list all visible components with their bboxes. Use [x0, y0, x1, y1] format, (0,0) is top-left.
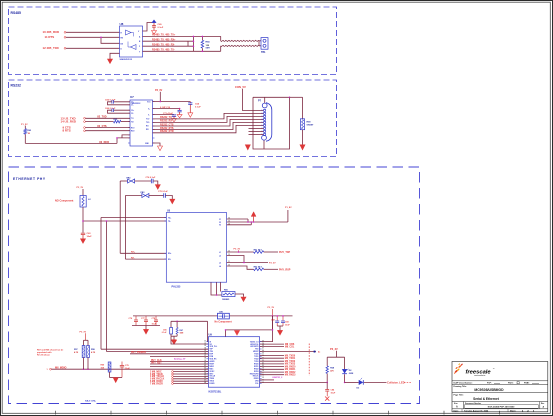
wire U9 right MII_RXD3 — [260, 374, 284, 376]
wire CON_5V to DB9 — [242, 89, 263, 111]
wire decoupling rail — [133, 315, 293, 317]
svg-text:C2+: C2+ — [131, 110, 134, 112]
svg-text:10K: 10K — [101, 368, 105, 370]
junction L2 — [82, 220, 84, 222]
capacitor C69 — [152, 25, 156, 27]
svg-text:32: 32 — [204, 343, 206, 345]
ground C82 C83 — [278, 330, 283, 335]
svg-text:RS485_TX_485_RX-: RS485_TX_485_RX- — [152, 44, 175, 47]
section box RS232 — [9, 80, 337, 157]
wire caps join — [277, 325, 283, 327]
op-amp U8 RS485 transceiver — [120, 26, 143, 57]
svg-text:15: 15 — [262, 377, 264, 379]
capacitor C79 — [120, 364, 124, 366]
resistor R58 pullup — [87, 340, 89, 345]
svg-text:17: 17 — [262, 372, 264, 374]
resistor R69 shunt branch — [290, 96, 303, 98]
wire U9 row3 right — [260, 346, 284, 348]
wire U5 row3 P3_3V — [227, 262, 268, 264]
wire U9 row 356.5 — [150, 355, 208, 357]
capacitor C10 — [179, 108, 181, 110]
svg-text:Serial & Ethernet: Serial & Ethernet — [473, 397, 500, 401]
resistor R61 — [254, 251, 264, 254]
capacitor C78 — [155, 316, 157, 320]
junction loop c — [193, 45, 195, 47]
wire FB2 to C74 — [135, 180, 151, 182]
svg-text:ICAP Classification:: ICAP Classification: — [454, 382, 473, 385]
wire U9 row 364 — [150, 363, 208, 365]
svg-text:U2_TXD: U2_TXD — [97, 116, 107, 119]
svg-text:Rev: Rev — [541, 403, 544, 405]
wire U2_RXD to U7 — [85, 121, 113, 123]
svg-text:4.7K: 4.7K — [74, 351, 79, 354]
wire U9 right MII_RXD0 — [260, 366, 284, 368]
power arrow U5 — [253, 216, 255, 222]
junction DTR — [116, 137, 118, 139]
svg-text:R62 49.9: R62 49.9 — [254, 266, 263, 269]
svg-text:U2_CTS: U2_CTS — [97, 125, 107, 128]
svg-text:R65: R65 — [114, 119, 117, 121]
wire R60 to ground — [235, 294, 244, 297]
wire MII_MDIO long — [51, 368, 208, 370]
wire termination loop mid vertical — [192, 36, 194, 51]
svg-text:COL: COL — [255, 383, 259, 385]
svg-text:P3_3V: P3_3V — [234, 249, 241, 251]
LED D3 collision — [359, 380, 363, 385]
junction power rail — [225, 329, 227, 331]
svg-text:RS485_TX_485_RX+: RS485_TX_485_RX+ — [152, 39, 176, 42]
wire R61 out — [264, 251, 278, 253]
svg-text:SN65HVD12: SN65HVD12 — [120, 59, 133, 61]
svg-text:P3_3V: P3_3V — [80, 331, 87, 333]
svg-text:Tuesday, August 01, 2006: Tuesday, August 01, 2006 — [464, 409, 489, 412]
svg-text:C2-: C2- — [131, 113, 134, 115]
svg-text:PHL335: PHL335 — [172, 285, 181, 288]
svg-text:U8: U8 — [120, 22, 124, 26]
wire U9 left MII_MDC — [172, 371, 174, 373]
freescale logo — [454, 370, 458, 374]
svg-text:V2: V2 — [219, 222, 221, 224]
bottom fold tick marks — [55, 411, 57, 415]
junction D2 rail — [344, 382, 346, 384]
ground below R69 — [300, 145, 305, 150]
wire C75 to ground — [166, 196, 173, 200]
svg-text:SCH-23455 PDF 24731000: SCH-23455 PDF 24731000 — [488, 406, 516, 409]
capacitor C86 no component — [218, 313, 230, 319]
IC U9 ethernet PHY — [208, 337, 259, 388]
wire D3 out — [364, 381, 387, 383]
svg-text:KS8721BL: KS8721BL — [209, 389, 222, 393]
svg-text:MII_TXD2: MII_TXD2 — [285, 361, 296, 363]
junction R68 rail — [326, 382, 328, 384]
wire rail A2 to U9 — [107, 351, 209, 353]
svg-text:L1: L1 — [219, 252, 221, 254]
svg-text:of: of — [527, 410, 529, 412]
ground caps cluster — [144, 329, 149, 334]
svg-text:Collision_LED: Collision_LED — [387, 380, 405, 384]
svg-text:12 485_TXD: 12 485_TXD — [43, 46, 59, 50]
svg-text:10uF: 10uF — [125, 368, 130, 370]
U7 GND wire — [153, 143, 161, 146]
wire U9 left MII_RXDV — [172, 380, 174, 382]
svg-text:TD+: TD+ — [168, 217, 171, 219]
ground below U8 — [108, 59, 113, 64]
wire power rail above U9 — [226, 329, 273, 331]
svg-text:MII_COL: MII_COL — [285, 346, 295, 348]
resistor R63 pullup — [24, 129, 27, 135]
svg-text:PUBI:: PUBI: — [524, 383, 530, 385]
svg-text:CON_5V: CON_5V — [235, 85, 246, 89]
svg-text:25: 25 — [262, 353, 264, 355]
U9 right pin names — [260, 341, 262, 343]
capacitor C82 — [276, 316, 278, 321]
connector TB1 — [259, 40, 261, 42]
document number row — [462, 402, 464, 409]
LED D2 power — [342, 369, 347, 373]
resistor R67 10M — [176, 328, 178, 335]
junction MDC pullup — [87, 368, 89, 370]
svg-text:RS485: RS485 — [11, 11, 21, 15]
svg-text:0.1uF: 0.1uF — [195, 106, 201, 108]
section box ETHERNET PHY — [9, 167, 420, 404]
U9 left pin names — [206, 341, 208, 343]
svg-text:RS232_DTR: RS232_DTR — [160, 130, 174, 133]
wire V- C71 — [153, 114, 175, 116]
svg-text:Drawing Title:: Drawing Title: — [454, 385, 468, 388]
wire RS232_CTS to DB9 — [153, 119, 264, 126]
svg-text:33: 33 — [204, 345, 206, 347]
svg-text:V3: V3 — [219, 225, 221, 227]
net label P1_8V — [287, 210, 289, 222]
svg-text:10uF: 10uF — [285, 324, 290, 326]
svg-text:P3_3V: P3_3V — [155, 89, 163, 92]
svg-text:10uF: 10uF — [87, 236, 93, 238]
junction loop b — [193, 40, 195, 42]
svg-text:L2: L2 — [219, 255, 221, 257]
svg-text:ETHERNET PHY: ETHERNET PHY — [13, 177, 46, 181]
DB9 unused pin stubs — [249, 127, 264, 129]
svg-text:RS485_TX_485_TX-: RS485_TX_485_TX- — [152, 49, 175, 52]
ground below U7 — [158, 146, 163, 151]
wire RS232_DTR to DB9 — [153, 125, 264, 132]
resistor R59 10K — [108, 362, 111, 372]
wire 485_TXD to U8 — [66, 47, 120, 49]
wire U5 LED row1 — [227, 251, 254, 253]
bus marker dashed red — [308, 344, 310, 376]
svg-text:P3_3V: P3_3V — [330, 347, 338, 351]
svg-text:MII_RXD1: MII_RXD1 — [285, 369, 296, 371]
svg-text:A: A — [456, 406, 458, 409]
wire U9 right MII_RXD1 — [260, 368, 284, 370]
capacitor C64 bypass — [189, 102, 191, 103]
svg-text:Sheet: Sheet — [510, 409, 516, 412]
svg-text:Date:: Date: — [454, 409, 459, 412]
svg-text:31: 31 — [204, 340, 206, 342]
ground DB9 — [245, 145, 250, 150]
svg-text:4.7K: 4.7K — [91, 351, 96, 354]
wire U9 row 366.4 — [150, 365, 208, 367]
wire U8 pin Y out — [143, 50, 221, 52]
wire U8 pin B out — [143, 40, 194, 42]
svg-text:MC9S08/USBMOD: MC9S08/USBMOD — [474, 388, 504, 392]
svg-text:C66 0.1uF: C66 0.1uF — [105, 108, 116, 110]
resistor R62 — [254, 268, 264, 271]
ground crystal — [172, 339, 177, 341]
wire rail down to U9 — [260, 316, 273, 342]
wire C74 to ground — [153, 181, 158, 185]
capacitor C74 — [150, 179, 152, 184]
wire rail A1 — [100, 218, 102, 350]
crystal Y1 — [170, 328, 173, 335]
wire 485_RXD to U8 — [66, 31, 120, 33]
svg-text:MII_TXD0: MII_TXD0 — [285, 355, 296, 357]
svg-text:RD-: RD- — [168, 259, 171, 261]
wire RS232_TX to DB9 — [153, 113, 264, 119]
svg-text:8 RTS: 8 RTS — [63, 129, 71, 133]
wire U9 right MII_TXD3 — [260, 363, 284, 365]
svg-text:Rev B silicon: Rev B silicon — [37, 354, 51, 356]
wire U5 LED row2 — [227, 256, 244, 263]
wire U9 row 353.8 — [130, 353, 208, 355]
svg-text:30: 30 — [262, 340, 264, 342]
junction rail P3_3V — [272, 315, 274, 317]
svg-text:™: ™ — [493, 368, 495, 371]
svg-text:PHY_PWRDN: PHY_PWRDN — [131, 352, 146, 354]
svg-text:RD+: RD+ — [168, 253, 171, 255]
U8 GND wire — [110, 53, 120, 59]
wire RS232_RTS to DB9 — [153, 122, 264, 129]
svg-text:C1+: C1+ — [131, 102, 134, 104]
svg-text:V+: V+ — [148, 108, 150, 110]
ground below C64 — [188, 113, 193, 118]
wire long U2_DCD — [25, 142, 117, 144]
svg-text:U2_DCD: U2_DCD — [99, 141, 109, 144]
svg-text:SHUNT: SHUNT — [307, 125, 315, 127]
wire twisted pair to TB1 — [221, 40, 259, 41]
svg-text:P3_3V: P3_3V — [77, 187, 84, 189]
resistor R68 — [326, 366, 328, 374]
svg-text:18: 18 — [262, 370, 264, 372]
svg-text:14 U2_RXD: 14 U2_RXD — [61, 120, 76, 124]
svg-text:PHY_RXP: PHY_RXP — [279, 269, 291, 272]
junction bottom stub — [216, 294, 218, 296]
svg-text:GRN: GRN — [349, 373, 354, 375]
junction VCC — [160, 101, 162, 103]
resistor R60 chassis — [222, 292, 235, 297]
svg-text:FCP:: FCP: — [487, 383, 492, 385]
svg-text:RS232: RS232 — [11, 84, 21, 88]
svg-text:L3: L3 — [219, 262, 221, 264]
svg-text:freescale: freescale — [466, 369, 492, 375]
wire U2_TXD to U7 — [85, 117, 130, 119]
svg-text:MII_TXD1: MII_TXD1 — [285, 358, 296, 360]
wire termination loop jumper — [187, 41, 189, 46]
junction shield — [289, 97, 291, 99]
svg-text:C85: C85 — [163, 329, 166, 331]
wire FB3 to C75 — [149, 195, 164, 197]
svg-text:0.1uF: 0.1uF — [158, 27, 164, 29]
wire VCC U7 — [159, 92, 161, 102]
power arrow down U9 — [234, 331, 239, 336]
svg-text:11 RTS: 11 RTS — [45, 35, 55, 39]
wire RTS jog to DE pin — [101, 37, 120, 43]
crystal circuit loop — [171, 320, 208, 322]
junction rail A2 — [106, 220, 108, 222]
wire V+ C10 — [153, 108, 180, 110]
wire rail B1 ferrite row — [119, 181, 121, 253]
svg-text:RS232_RX: RS232_RX — [160, 120, 172, 123]
ferrite bead FB2 — [128, 179, 135, 183]
capacitor C76 — [135, 316, 137, 320]
svg-text:P3_3V: P3_3V — [268, 307, 275, 309]
wire U8 pin Z out — [143, 45, 194, 47]
resistor R65 series — [114, 120, 122, 123]
wire U9 right MII_TXD2 — [260, 360, 284, 362]
wire U5 bottom stubs — [211, 282, 222, 295]
junction loop a — [193, 36, 195, 38]
wire R68 branch — [326, 357, 328, 366]
wire U8 pin A out — [143, 35, 221, 37]
wire R59 C79 join — [110, 377, 123, 379]
ground FB2 row — [155, 185, 160, 190]
wire crystal to U9 — [207, 321, 210, 341]
wire RTS to U8 — [66, 36, 120, 38]
svg-text:Analog_3V: Analog_3V — [174, 357, 186, 360]
power P3V3 U8 bypass — [152, 20, 156, 23]
IC U7 MAX3232 — [130, 100, 153, 146]
resistor R57 pullup — [83, 340, 85, 345]
svg-text:V1: V1 — [219, 219, 221, 221]
inductor L2 no component — [82, 189, 84, 196]
svg-text:10 485_RXD: 10 485_RXD — [43, 30, 60, 34]
svg-text:P1_8V: P1_8V — [285, 207, 292, 209]
svg-text:L4: L4 — [219, 265, 221, 268]
svg-text:R67: R67 — [180, 330, 183, 332]
wire rail A1 to U9 — [101, 348, 208, 350]
wire U9 long row right — [260, 351, 316, 353]
svg-text:C75 0.1uF: C75 0.1uF — [158, 191, 169, 193]
junction RTS — [100, 37, 102, 39]
svg-text:C1-: C1- — [131, 105, 134, 107]
wire rail B2 ferrite row — [124, 196, 126, 260]
svg-text:0.1UF C10: 0.1UF C10 — [160, 107, 171, 109]
wire U9 left MII_TXCLK — [172, 376, 174, 378]
svg-text:NO Component: NO Component — [55, 199, 73, 202]
wire U9 LED rail long — [260, 381, 328, 383]
wire twisted pair stubs — [220, 36, 222, 41]
capacitor C77 — [145, 316, 147, 320]
wire U9 row 379.9 right — [260, 379, 274, 381]
svg-text:TD-: TD- — [168, 221, 171, 223]
wire U9 right MII_RXD2 — [260, 371, 284, 373]
svg-text:KS8721_2: KS8721_2 — [273, 377, 284, 379]
svg-text:RX-: RX- — [131, 257, 135, 259]
svg-text:PHY_TXP: PHY_TXP — [279, 251, 290, 254]
ground FB3 row — [170, 199, 175, 204]
ground R59 — [113, 378, 118, 383]
svg-text:TB1: TB1 — [261, 51, 266, 54]
svg-text:U9: U9 — [209, 333, 213, 337]
wire R62 out — [264, 268, 278, 270]
svg-text:No Component: No Component — [215, 320, 232, 323]
svg-text:Page Title:: Page Title: — [454, 394, 464, 397]
wire U9 row2 right — [260, 343, 284, 345]
svg-text:U7: U7 — [130, 95, 134, 99]
svg-text:1M0805: 1M0805 — [222, 299, 230, 301]
wire CTS to U7 — [85, 127, 130, 129]
svg-text:MII_RXD3: MII_RXD3 — [285, 375, 296, 377]
wire U9 right MII_TXD1 — [260, 357, 284, 359]
wire DTR loop lower — [117, 138, 130, 144]
wire rail to D3 — [345, 381, 359, 383]
wire U5 LED row4 — [227, 266, 254, 269]
ground R60 — [241, 297, 246, 302]
wire DTR loop upper — [122, 135, 130, 138]
wire P3_3V LED down — [336, 351, 338, 358]
svg-text:7 MII_RXER: 7 MII_RXER — [150, 383, 163, 385]
wire U9 right MII_TXD0 — [260, 355, 284, 357]
svg-text:FIUO:: FIUO: — [508, 383, 514, 385]
svg-text:S4LV_DNL: S4LV_DNL — [85, 399, 97, 402]
wire crystal bottom — [170, 334, 172, 336]
wire LED D2 branch — [344, 357, 346, 369]
wire L2 to PHY center tap — [82, 207, 84, 233]
svg-text:10M: 10M — [180, 333, 184, 335]
svg-text:P1_5V: P1_5V — [21, 124, 28, 126]
svg-text:P3_3V: P3_3V — [269, 263, 276, 265]
title block frame — [452, 362, 548, 412]
ground below C63 — [81, 239, 86, 244]
svg-text:MII_RXD0: MII_RXD0 — [285, 366, 296, 368]
svg-text:R61 49.9: R61 49.9 — [254, 248, 263, 251]
wire caps common — [132, 325, 160, 327]
svg-text:C65 0.1uF: C65 0.1uF — [105, 100, 116, 102]
wire U9 row 361.8 — [150, 361, 208, 363]
wire crystal XO to U9 — [171, 336, 208, 344]
ground below C69 — [152, 31, 157, 35]
wire U9 left MII_RXER — [172, 383, 174, 385]
ground X C84 — [325, 397, 329, 401]
wire U9 left MII_TXEN — [172, 373, 174, 375]
ferrite bead FB3 — [142, 194, 149, 198]
junction MDIO pullup — [83, 368, 85, 370]
svg-text:10uF: 10uF — [331, 392, 336, 394]
section box RS485 — [9, 7, 337, 75]
connector P7 DB9 shield loop — [253, 97, 290, 149]
capacitor C84 branch — [326, 382, 328, 389]
U8 VCC pin wire — [143, 23, 153, 32]
svg-text:RS485_TX_485_TX+: RS485_TX_485_TX+ — [152, 34, 176, 37]
svg-text:38: 38 — [204, 358, 206, 360]
svg-text:DGND: DGND — [210, 383, 216, 385]
wire RS232_RX to DB9 — [153, 116, 264, 122]
svg-text:27: 27 — [262, 348, 264, 350]
transformer U5 magnetics — [166, 213, 226, 283]
wire U5 power pins bus — [227, 218, 248, 220]
capacitor C63 — [81, 232, 85, 234]
wire U9 left MII_RXCLK — [172, 378, 174, 380]
wire RTS to U7 rs232 — [85, 130, 130, 132]
svg-text:C74 0.1uF: C74 0.1uF — [146, 176, 157, 179]
capacitor C83 — [282, 316, 284, 321]
resistor R64 termination — [201, 36, 203, 40]
wire LED top rail — [327, 356, 344, 358]
svg-text:PHY_RST: PHY_RST — [151, 362, 162, 364]
wire rail A2 — [106, 221, 108, 352]
capacitor C75 — [163, 193, 165, 198]
